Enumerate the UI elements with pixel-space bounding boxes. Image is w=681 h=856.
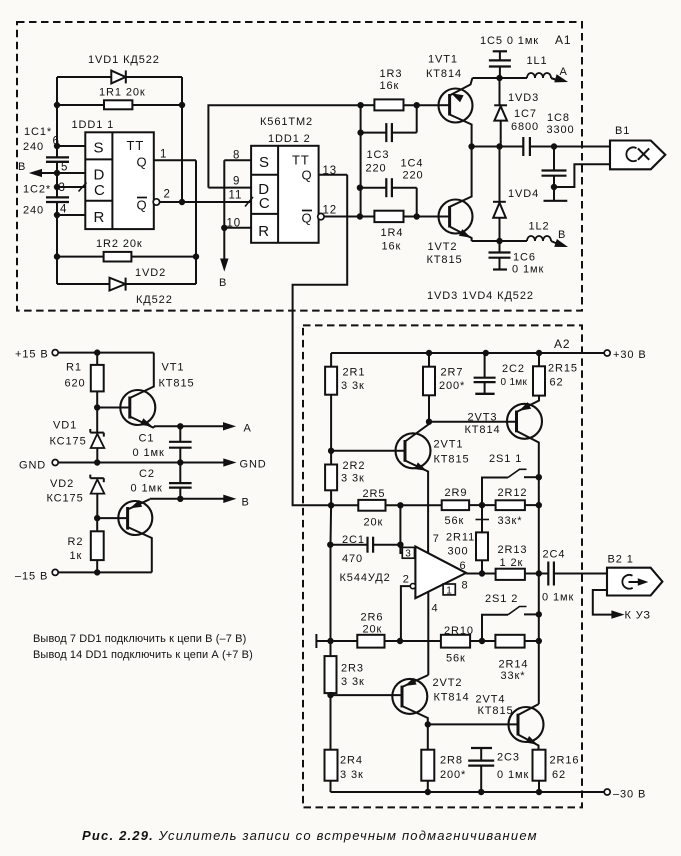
- svg-text:2R16: 2R16: [550, 755, 580, 767]
- wire GND rail: [58, 462, 226, 464]
- transistor Q2 1VT2: [439, 147, 473, 242]
- svg-text:R: R: [258, 223, 270, 240]
- svg-text:56к: 56к: [446, 653, 466, 665]
- svg-text:GND: GND: [240, 459, 267, 471]
- svg-text:C1: C1: [139, 433, 155, 445]
- svg-text:62: 62: [550, 377, 564, 389]
- resistor 2R1: [325, 353, 365, 451]
- transistor Q1 1VT1: [439, 78, 473, 147]
- svg-text:A1: A1: [555, 33, 571, 47]
- svg-text:2R15: 2R15: [548, 363, 578, 375]
- svg-text:A: A: [244, 423, 252, 435]
- node dot collectors join: [469, 144, 474, 149]
- svg-text:33к*: 33к*: [498, 515, 523, 527]
- svg-text:8: 8: [233, 150, 240, 162]
- svg-text:2S1 1: 2S1 1: [489, 453, 522, 465]
- transistor 2VT3: [429, 396, 542, 478]
- svg-text:1VD3: 1VD3: [508, 92, 539, 104]
- svg-text:1C3: 1C3: [367, 149, 390, 161]
- node dot switch2 right: [536, 612, 541, 617]
- svg-text:1VD4: 1VD4: [508, 188, 539, 200]
- wire plus input: [400, 545, 402, 553]
- wire base rail vertical: [360, 105, 362, 216]
- svg-text:1С8: 1С8: [547, 112, 570, 124]
- svg-text:1DD1 2: 1DD1 2: [268, 133, 311, 145]
- svg-text:+15 В: +15 В: [15, 349, 49, 361]
- node dot rail-1C3: [358, 130, 363, 135]
- svg-text:+30 В: +30 В: [613, 349, 647, 361]
- resistor 1R3: [361, 68, 439, 110]
- node dot 2R15 top: [536, 350, 541, 355]
- svg-text:6800: 6800: [511, 121, 539, 133]
- svg-text:1: 1: [160, 149, 167, 161]
- resistor 2R8: [421, 724, 466, 792]
- node dot pin4: [54, 212, 59, 217]
- recording head B1: [610, 141, 665, 170]
- node dot bottom rail: [497, 238, 502, 243]
- diode 1VD2: [110, 267, 173, 306]
- svg-text:12: 12: [323, 204, 338, 216]
- terminal +15V: [15, 349, 58, 361]
- node B arrow down: [219, 259, 228, 289]
- svg-text:C2: C2: [139, 468, 155, 480]
- svg-text:0 1мк: 0 1мк: [131, 483, 163, 495]
- label B2 1: [608, 554, 634, 566]
- node dot pin5: [54, 170, 59, 175]
- node dot 2C3 bottom: [479, 789, 484, 794]
- dashed box A1 (oscillator section): [17, 22, 582, 311]
- svg-text:TT: TT: [127, 138, 145, 153]
- svg-text:КД522: КД522: [136, 294, 173, 306]
- svg-text:10: 10: [227, 217, 242, 229]
- wire Q2 to amplifier input: [293, 175, 348, 506]
- svg-text:Вывод 7 DD1 подключить к цепи: Вывод 7 DD1 подключить к цепи В (–7 В): [33, 633, 246, 645]
- svg-text:20к: 20к: [363, 624, 383, 636]
- svg-text:2С1: 2С1: [342, 534, 365, 546]
- capacitor 1C2: [23, 184, 69, 217]
- node dot 1R2 left: [54, 254, 59, 259]
- wire head B1 second terminal: [554, 164, 610, 187]
- svg-text:1: 1: [446, 586, 452, 597]
- node dot 2R8 bottom: [425, 789, 430, 794]
- pin 6 wire: [53, 136, 86, 148]
- svg-text:2R3: 2R3: [341, 663, 364, 675]
- svg-text:0 1мк: 0 1мк: [542, 592, 574, 604]
- svg-text:КТ814: КТ814: [426, 68, 462, 80]
- capacitor 1C5: [480, 35, 539, 78]
- wire left rail upper: [56, 77, 58, 157]
- node dot 2VT2 base: [328, 692, 333, 697]
- svg-text:4: 4: [432, 602, 439, 614]
- svg-text:2R2: 2R2: [343, 460, 366, 472]
- node dot 2R9-2R12: [479, 502, 484, 507]
- pin 8 wire: [224, 150, 251, 162]
- wire output bus: [538, 477, 540, 704]
- diode 1VD1: [88, 54, 160, 83]
- node dot 2VT2 collector: [425, 722, 430, 727]
- wire minus input: [401, 586, 410, 641]
- svg-text:1C2*: 1C2*: [23, 184, 51, 196]
- svg-text:В1: В1: [615, 125, 630, 137]
- svg-text:1к: 1к: [70, 550, 83, 562]
- node B arrow out: [224, 495, 250, 508]
- svg-text:КС175: КС175: [47, 493, 84, 505]
- svg-text:–30 В: –30 В: [613, 789, 646, 801]
- note line 2: [33, 649, 253, 661]
- node dot C2 bottom: [178, 496, 183, 501]
- svg-text:300: 300: [448, 546, 469, 558]
- terminal -30V: [604, 789, 646, 801]
- label 2VT4: [476, 694, 514, 718]
- pin 1 wire Q out: [154, 149, 196, 161]
- svg-text:1R4: 1R4: [381, 227, 404, 239]
- svg-text:2R14: 2R14: [499, 659, 529, 671]
- inductor 1L1: [500, 55, 552, 78]
- svg-text:3 3к: 3 3к: [341, 473, 365, 485]
- capacitor 1C6: [489, 241, 545, 276]
- node dot rail-1R4: [357, 214, 362, 219]
- resistor 2R9: [442, 487, 496, 527]
- wire 2R5 to plus input: [399, 505, 401, 544]
- wire right vertical Q-bar net: [181, 77, 183, 202]
- svg-text:В2 1: В2 1: [608, 554, 634, 566]
- transistor 2VT1: [331, 422, 430, 553]
- svg-text:0 1мк: 0 1мк: [497, 769, 529, 781]
- svg-text:2R7: 2R7: [441, 367, 464, 379]
- svg-text:3300: 3300: [547, 124, 575, 136]
- label 1VT1: [426, 54, 462, 81]
- svg-text:2R12: 2R12: [498, 487, 528, 499]
- wire 1VT1 emitter to top rail: [472, 77, 499, 79]
- node dot 1R1 left: [54, 102, 59, 107]
- svg-text:КТ815: КТ815: [434, 454, 470, 466]
- terminal -15V: [15, 569, 58, 582]
- inductor 1L2: [500, 221, 552, 242]
- wire Q1 vertical: [195, 160, 197, 284]
- label 2VT2: [433, 677, 470, 704]
- node dot 1C8 top: [551, 144, 556, 149]
- svg-text:16к: 16к: [382, 241, 402, 253]
- svg-text:Q: Q: [137, 155, 148, 170]
- svg-text:1VT1: 1VT1: [428, 54, 458, 66]
- playback head B2: [607, 568, 662, 596]
- resistor 2R16: [533, 750, 580, 792]
- capacitor 1C4: [360, 158, 424, 217]
- svg-text:1VT2: 1VT2: [428, 241, 458, 253]
- node dot 2R6 out: [397, 638, 402, 643]
- node dot 2R10-2R14: [479, 638, 484, 643]
- wire mid rail right: [530, 146, 610, 148]
- svg-text:2С4: 2С4: [543, 549, 566, 561]
- svg-text:13: 13: [323, 165, 338, 177]
- wire vd rail top: [499, 78, 501, 105]
- svg-text:TT: TT: [292, 153, 310, 168]
- svg-text:2: 2: [403, 574, 410, 586]
- transistor 2VT2: [331, 675, 429, 724]
- svg-text:2VT2: 2VT2: [433, 677, 463, 689]
- node dot 2R12 out: [536, 502, 541, 507]
- resistor 2R5: [358, 488, 441, 529]
- svg-text:VD2: VD2: [50, 478, 74, 490]
- wire -30 rail: [331, 791, 605, 793]
- svg-text:Q: Q: [302, 211, 313, 226]
- svg-text:1C7: 1C7: [514, 108, 537, 120]
- node dot C1 top: [178, 424, 183, 429]
- node dot 2R13 out: [536, 571, 541, 576]
- resistor 2R6: [357, 612, 441, 648]
- svg-text:В: В: [242, 497, 250, 509]
- svg-text:Рис. 2.29. Усилитель записи: Рис. 2.29. Усилитель записи со встречным…: [82, 828, 538, 843]
- pin 5 wire: [57, 162, 85, 174]
- capacitor 2C2: [474, 353, 528, 394]
- node dot 2C2 top: [483, 350, 488, 355]
- node dot C1 bottom: [178, 460, 183, 465]
- svg-text:4: 4: [60, 204, 67, 216]
- pin 10 wire: [223, 217, 251, 229]
- wire vd rail mid: [499, 147, 501, 203]
- resistor 2R13: [496, 544, 548, 580]
- node dot rail-1R3: [358, 103, 363, 108]
- svg-text:16к: 16к: [380, 80, 400, 92]
- svg-text:В: В: [18, 161, 26, 173]
- node dot R1 top: [95, 350, 100, 355]
- node dot 2R16 bottom: [536, 789, 541, 794]
- capacitor 2C1: [330, 534, 400, 565]
- svg-text:2R5: 2R5: [363, 488, 386, 500]
- wire mid rail left: [472, 146, 524, 148]
- svg-text:2R6: 2R6: [361, 612, 384, 624]
- label 2VT3: [465, 412, 501, 437]
- svg-text:A: A: [560, 66, 568, 78]
- svg-text:К544УД2: К544УД2: [340, 572, 391, 584]
- node dot 2C1 left: [328, 542, 333, 547]
- svg-text:2VT4: 2VT4: [476, 694, 506, 706]
- svg-text:2R1: 2R1: [343, 367, 366, 379]
- svg-text:В: В: [219, 277, 227, 289]
- node dot 2R14 out: [536, 638, 541, 643]
- label 1VT2: [427, 241, 463, 266]
- terminal +30V: [604, 349, 646, 361]
- label K544UD2: [340, 572, 391, 584]
- node dot 2R5 out: [398, 503, 403, 508]
- wire B line: [150, 498, 226, 500]
- svg-text:1С6: 1С6: [513, 252, 536, 264]
- node dot pin2 net: [179, 199, 184, 204]
- svg-text:2R4: 2R4: [340, 755, 363, 767]
- svg-text:R1: R1: [66, 362, 82, 374]
- svg-text:8: 8: [462, 579, 469, 591]
- label VT1: [159, 362, 195, 390]
- svg-text:КТ815: КТ815: [427, 254, 463, 266]
- wire left rail lower: [56, 202, 58, 284]
- node dot R2 bottom: [95, 570, 100, 575]
- resistor 2R11: [446, 505, 489, 573]
- node dot feedback-bias: [328, 638, 333, 643]
- svg-text:3 3к: 3 3к: [341, 380, 365, 392]
- svg-text:2R11: 2R11: [446, 532, 475, 544]
- svg-text:VD1: VD1: [53, 420, 77, 432]
- svg-text:S: S: [259, 154, 270, 171]
- wire left rail mid: [56, 162, 58, 197]
- wire 1VT2 emitter to bottom rail: [472, 240, 500, 242]
- wire input line: [331, 504, 358, 506]
- capacitor 2C4: [542, 549, 607, 604]
- svg-text:20к: 20к: [364, 517, 384, 529]
- svg-text:2R9: 2R9: [445, 487, 468, 499]
- wire emitter to A: [154, 425, 226, 427]
- label 1DD1 2: [268, 133, 311, 145]
- resistor 2R12: [496, 487, 539, 527]
- node dot VT1 base: [95, 405, 100, 410]
- svg-text:11: 11: [229, 190, 243, 202]
- resistor 1R4: [360, 211, 439, 253]
- terminal GND: [19, 460, 58, 472]
- wire pin4 supply: [427, 592, 429, 675]
- svg-text:Вывод 14 DD1 подключить к цепи: Вывод 14 DD1 подключить к цепи А (+7 В): [33, 649, 253, 661]
- svg-text:0 1мк: 0 1мк: [501, 377, 528, 388]
- svg-text:200*: 200*: [439, 380, 465, 392]
- pin 9 wire: [208, 176, 251, 188]
- svg-text:2S1 2: 2S1 2: [485, 593, 518, 605]
- switch 2S1.1: [482, 453, 539, 505]
- transistor 2VT4: [428, 704, 544, 750]
- svg-text:КТ815: КТ815: [478, 705, 514, 717]
- svg-text:220: 220: [366, 163, 387, 175]
- svg-text:1VD2: 1VD2: [135, 267, 166, 279]
- svg-text:1С5 0 1мк: 1С5 0 1мк: [480, 35, 539, 47]
- node dot 1R4-1C4 join: [414, 214, 419, 219]
- svg-text:1VD3 1VD4 КД522: 1VD3 1VD4 КД522: [427, 290, 534, 302]
- svg-text:9: 9: [233, 176, 240, 188]
- svg-text:240: 240: [23, 205, 44, 217]
- pin 2 wire Qbar out: [153, 189, 251, 206]
- svg-text:1L1: 1L1: [527, 55, 548, 67]
- svg-text:Q: Q: [137, 198, 148, 213]
- svg-text:2: 2: [164, 189, 171, 201]
- svg-text:1DD1 1: 1DD1 1: [72, 119, 115, 131]
- flip-flop U1 1DD1.1: [85, 132, 154, 229]
- svg-text:C: C: [94, 182, 106, 199]
- svg-text:1C4: 1C4: [401, 158, 424, 170]
- svg-text:S: S: [94, 140, 105, 157]
- node dot pin10: [222, 225, 227, 230]
- capacitor C2: [131, 463, 192, 499]
- wire feedback stub: [316, 634, 357, 648]
- label A2: [554, 337, 570, 351]
- wire head B2 second terminal: [593, 590, 617, 615]
- node dot 2VT1 collector: [426, 419, 431, 424]
- diode 1VD3: [494, 92, 539, 147]
- pin 4 wire: [57, 204, 85, 216]
- svg-text:–15 В: –15 В: [15, 571, 48, 583]
- svg-text:КС175: КС175: [50, 436, 87, 448]
- svg-text:220: 220: [403, 170, 424, 182]
- node K UZ arrow: [612, 610, 651, 622]
- pin 13 wire Q out: [319, 165, 348, 177]
- svg-text:6: 6: [460, 560, 467, 572]
- resistor 1R2: [96, 238, 143, 262]
- svg-text:R: R: [94, 209, 106, 226]
- svg-text:56к: 56к: [445, 515, 465, 527]
- node dot 2VT1 base rail: [328, 448, 333, 453]
- wire -15 rail: [58, 571, 152, 573]
- node dot output-2R11: [479, 571, 484, 576]
- svg-text:1VD1 КД522: 1VD1 КД522: [88, 54, 160, 66]
- resistor 1R1: [99, 87, 146, 110]
- svg-text:1R1 20к: 1R1 20к: [99, 87, 146, 99]
- resistor 2R14: [495, 635, 538, 682]
- wire 1VD1 top line: [57, 76, 182, 78]
- svg-text:0 1мк: 0 1мк: [133, 447, 165, 459]
- resistor 2R4: [325, 695, 364, 792]
- node dot mid-vd rail: [497, 144, 502, 149]
- svg-text:A2: A2: [554, 337, 570, 351]
- svg-text:3: 3: [405, 549, 411, 560]
- wire 1VD2 line: [57, 283, 196, 285]
- node B arrow right: [551, 229, 567, 247]
- svg-text:62: 62: [552, 769, 566, 781]
- svg-text:C: C: [259, 195, 271, 212]
- svg-text:1 2к: 1 2к: [500, 557, 524, 569]
- svg-text:5: 5: [61, 162, 68, 174]
- svg-text:3 3к: 3 3к: [340, 769, 364, 781]
- svg-text:240: 240: [23, 141, 44, 153]
- svg-text:В: В: [558, 229, 566, 241]
- svg-text:620: 620: [65, 378, 86, 390]
- label diodes type: [427, 290, 534, 302]
- capacitor C1: [133, 426, 192, 462]
- zener VD1: [50, 420, 105, 463]
- ground stub 1C8: [544, 187, 568, 201]
- node A arrow out: [224, 423, 252, 435]
- node dot switch1 right: [536, 475, 541, 480]
- op-amp U1 K544UD2: [402, 533, 468, 614]
- svg-text:470: 470: [342, 553, 363, 565]
- wire +15 rail: [58, 352, 154, 354]
- capacitor 1C1: [23, 126, 69, 162]
- wire D to rail top line: [208, 105, 360, 187]
- node dot 1R3-1C3 join: [414, 103, 419, 108]
- svg-text:2R13: 2R13: [498, 544, 528, 556]
- label 1DD1 1: [72, 119, 115, 131]
- svg-text:1L2: 1L2: [529, 221, 550, 233]
- svg-text:R2: R2: [68, 536, 84, 548]
- resistor 2R7: [423, 353, 465, 422]
- node dot 1C8 bottom: [551, 184, 556, 189]
- svg-text:2VT3: 2VT3: [468, 412, 498, 424]
- wire +30 rail: [331, 352, 604, 354]
- transistor VT1: [97, 353, 155, 428]
- resistor R1: [65, 353, 104, 433]
- svg-text:1R2 20к: 1R2 20к: [96, 238, 143, 250]
- capacitor 1C7: [511, 108, 539, 156]
- wire output: [466, 573, 496, 575]
- wire S-R to net B vertical: [223, 160, 225, 262]
- switch 2S1.2: [482, 593, 539, 641]
- resistor 2R15: [533, 353, 578, 396]
- capacitor 2C3: [468, 748, 529, 792]
- transistor VT2 lower: [97, 499, 152, 572]
- node B arrow left: [18, 161, 57, 177]
- caption: [82, 828, 538, 843]
- svg-text:2VT1: 2VT1: [434, 439, 464, 451]
- svg-text:7: 7: [433, 533, 440, 545]
- node dot input-bias: [328, 503, 333, 508]
- node dot zener mid: [95, 460, 100, 465]
- svg-text:VT1: VT1: [162, 362, 185, 374]
- zener VD2: [47, 475, 105, 518]
- svg-text:200*: 200*: [440, 769, 466, 781]
